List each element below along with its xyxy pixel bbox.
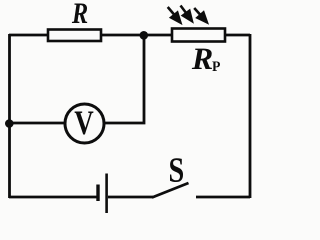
battery negative plate (short thick) (96, 185, 99, 202)
label V inside voltmeter (75, 112, 94, 135)
resistor R body (48, 30, 101, 42)
photoresistor RP body (172, 29, 225, 42)
wire: voltmeter branch left (from left bus to voltmeter) (9, 122, 64, 125)
label R (72, 4, 87, 24)
junction node on top bus (140, 31, 149, 40)
voltmeter V (65, 104, 104, 143)
wire: voltmeter branch right with corner up to top bus (105, 35, 144, 123)
label S (170, 158, 183, 182)
battery positive plate (long thin) (105, 174, 108, 214)
light arrow 1 onto RP (168, 7, 181, 23)
junction node on left bus (5, 119, 14, 128)
light arrow 2 onto RP (181, 6, 193, 22)
wire: bottom left segment from corner to battery (9, 196, 97, 199)
switch S lever (152, 183, 189, 198)
wire: right vertical side (249, 34, 252, 198)
label RP (192, 49, 212, 69)
wire: top horizontal bus from top-left corner to top-right corner (9, 34, 250, 37)
wire: bottom segment from battery to switch pivot (108, 196, 153, 199)
wire: left vertical side (8, 34, 11, 198)
wire: bottom right segment from switch to corner (196, 196, 250, 199)
light arrow 3 onto RP (194, 8, 207, 23)
label RP subscript P (212, 62, 220, 72)
